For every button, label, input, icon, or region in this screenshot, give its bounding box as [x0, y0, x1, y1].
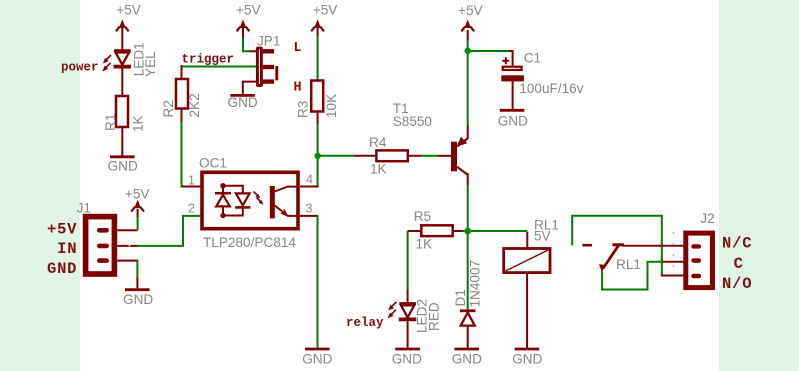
- wire junction to R4: [318, 155, 377, 157]
- svg-text:GND: GND: [392, 352, 422, 367]
- svg-text:+5V: +5V: [313, 3, 338, 18]
- svg-text:+5V: +5V: [47, 220, 77, 238]
- wire R5 left to LED2: [408, 231, 422, 304]
- svg-text:+5V: +5V: [236, 3, 261, 18]
- svg-text:10K: 10K: [324, 94, 339, 118]
- resistor R5: [414, 209, 453, 252]
- ground below RL1: [512, 349, 542, 367]
- wire D1 to GND: [467, 326, 469, 350]
- labels J2 N/C C N/O: [722, 235, 752, 293]
- wire relay NC contact to J2 pin N/C: [623, 245, 684, 247]
- wire R4 to T1 base: [408, 155, 451, 157]
- relay linkage dotted line: [672, 232, 674, 267]
- OC1 phototransistor: [270, 186, 298, 218]
- ground below LED2: [392, 349, 422, 367]
- svg-text:2: 2: [188, 202, 195, 216]
- wire junction to D1: [467, 231, 469, 310]
- wire C1 bottom to GND: [512, 80, 514, 110]
- resistor R1: [103, 96, 146, 132]
- wire relay pole to J2 pin C: [602, 262, 683, 290]
- ground below J1: [123, 290, 153, 307]
- wire R1 to GND: [121, 127, 123, 157]
- wire +5V to T1 emitter and C1: [467, 30, 469, 139]
- svg-text:+5V: +5V: [458, 3, 483, 18]
- svg-text:D1: D1: [453, 289, 468, 306]
- label relay: [346, 316, 384, 330]
- svg-text:J1: J1: [77, 200, 91, 215]
- svg-text:GND: GND: [228, 95, 258, 110]
- power symbol +5V (T1/C1 column): [458, 3, 483, 31]
- svg-text:5V: 5V: [534, 229, 551, 244]
- power symbol +5V (R3 column): [311, 3, 337, 81]
- svg-text:1K: 1K: [131, 115, 146, 132]
- wire relay NO contact to J2 pin N/O: [572, 216, 683, 276]
- relay contact RL1: [582, 244, 641, 272]
- resistor R3: [295, 81, 339, 119]
- wire JP1 +5V: [243, 36, 257, 51]
- wire R2 top pin stub: [181, 65, 183, 80]
- svg-text:R5: R5: [414, 209, 431, 224]
- wire J1 pin1 to +5V: [114, 209, 138, 230]
- svg-text:S8550: S8550: [393, 114, 433, 129]
- wire R2 bottom to OC1 pin 1: [182, 109, 202, 187]
- svg-text:R2: R2: [161, 100, 176, 117]
- wire JP1 to GND: [243, 82, 257, 96]
- ground below R1: [108, 157, 138, 174]
- wire C1 branch: [468, 50, 513, 66]
- optocoupler OC1: [188, 155, 313, 250]
- svg-text:R1: R1: [103, 114, 118, 131]
- svg-text:relay: relay: [346, 316, 384, 330]
- right background strip: [719, 0, 799, 371]
- node +5V/C1 junction: [465, 48, 471, 54]
- LED D LED1: [102, 42, 158, 77]
- ground below D1: [452, 349, 482, 367]
- wire LED2 to GND: [407, 319, 409, 349]
- wire junction to RL1 coil: [468, 231, 528, 249]
- ground below JP1: [228, 95, 258, 110]
- svg-text:YEL: YEL: [143, 51, 158, 77]
- svg-text:C: C: [734, 255, 744, 273]
- svg-text:GND: GND: [498, 114, 528, 129]
- OC1 internal LED pair: [215, 183, 264, 218]
- svg-text:RL1: RL1: [616, 257, 641, 272]
- svg-text:L: L: [294, 41, 302, 56]
- svg-text:JP1: JP1: [257, 34, 280, 49]
- transistor T1: [393, 101, 468, 175]
- power symbol +5V (JP1 column): [236, 3, 261, 38]
- connector J2: [686, 211, 715, 288]
- svg-text:J2: J2: [700, 211, 714, 226]
- power symbol +5V (above J1): [125, 187, 150, 212]
- diode D1: [453, 260, 483, 326]
- node R3/R4/OC1 junction: [314, 153, 320, 159]
- svg-text:GND: GND: [452, 352, 482, 367]
- wire J1 pin3 to GND: [114, 260, 137, 290]
- svg-text:GND: GND: [108, 159, 138, 174]
- wire J1 pin2 to OC1 pin2: [114, 216, 201, 246]
- svg-text:1K: 1K: [370, 162, 387, 177]
- capacitor C1: [501, 51, 583, 96]
- svg-text:+5V: +5V: [116, 3, 141, 18]
- svg-text:+5V: +5V: [125, 187, 150, 202]
- ground below OC1 pin3: [302, 349, 332, 367]
- svg-text:100uF/16v: 100uF/16v: [519, 81, 583, 96]
- connector J1: [77, 200, 115, 274]
- svg-text:R4: R4: [369, 135, 387, 150]
- wire trigger net: [182, 66, 257, 68]
- svg-text:H: H: [294, 80, 302, 95]
- wire T1 collector down: [467, 173, 469, 231]
- svg-text:N/O: N/O: [722, 275, 752, 293]
- svg-text:N/C: N/C: [722, 235, 752, 253]
- svg-text:1N4007: 1N4007: [467, 260, 482, 308]
- wire OC1 pin3 to GND: [300, 215, 318, 349]
- svg-text:R3: R3: [295, 101, 310, 118]
- svg-text:3: 3: [306, 202, 313, 216]
- label power: [61, 60, 99, 74]
- svg-text:C1: C1: [524, 51, 541, 66]
- ground below C1: [498, 110, 528, 128]
- svg-text:2K2: 2K2: [187, 93, 202, 117]
- svg-text:1K: 1K: [416, 237, 433, 252]
- svg-text:GND: GND: [302, 352, 332, 367]
- resistor R2: [161, 79, 202, 118]
- svg-text:IN: IN: [57, 240, 77, 258]
- power symbol +5V (LED1 column): [116, 3, 141, 51]
- svg-text:GND: GND: [512, 352, 542, 367]
- node collector/R5/D1/RL1 junction: [464, 228, 471, 235]
- relay coil RL1: [504, 217, 559, 272]
- labels J1 +5V IN GND: [47, 220, 77, 278]
- svg-text:TLP280/PC814: TLP280/PC814: [203, 235, 296, 250]
- wire R3 column: [300, 112, 319, 187]
- svg-text:OC1: OC1: [199, 155, 227, 170]
- wire junction to R5: [453, 230, 468, 232]
- resistor R4: [369, 135, 408, 177]
- svg-text:GND: GND: [123, 292, 153, 307]
- left background strip: [0, 0, 80, 371]
- svg-text:GND: GND: [47, 260, 77, 278]
- svg-text:RED: RED: [426, 302, 441, 331]
- svg-text:trigger: trigger: [182, 52, 235, 66]
- LED D LED2: [388, 299, 442, 333]
- jumper JP1: [257, 34, 302, 96]
- svg-text:4: 4: [306, 173, 313, 187]
- svg-text:power: power: [61, 60, 99, 74]
- svg-text:1: 1: [188, 174, 195, 188]
- wire RL1 coil to GND: [526, 273, 528, 349]
- junction artifact dots near J1 pin2: [123, 242, 131, 247]
- wire LED1 to R1: [121, 67, 123, 96]
- label trigger: [182, 52, 235, 66]
